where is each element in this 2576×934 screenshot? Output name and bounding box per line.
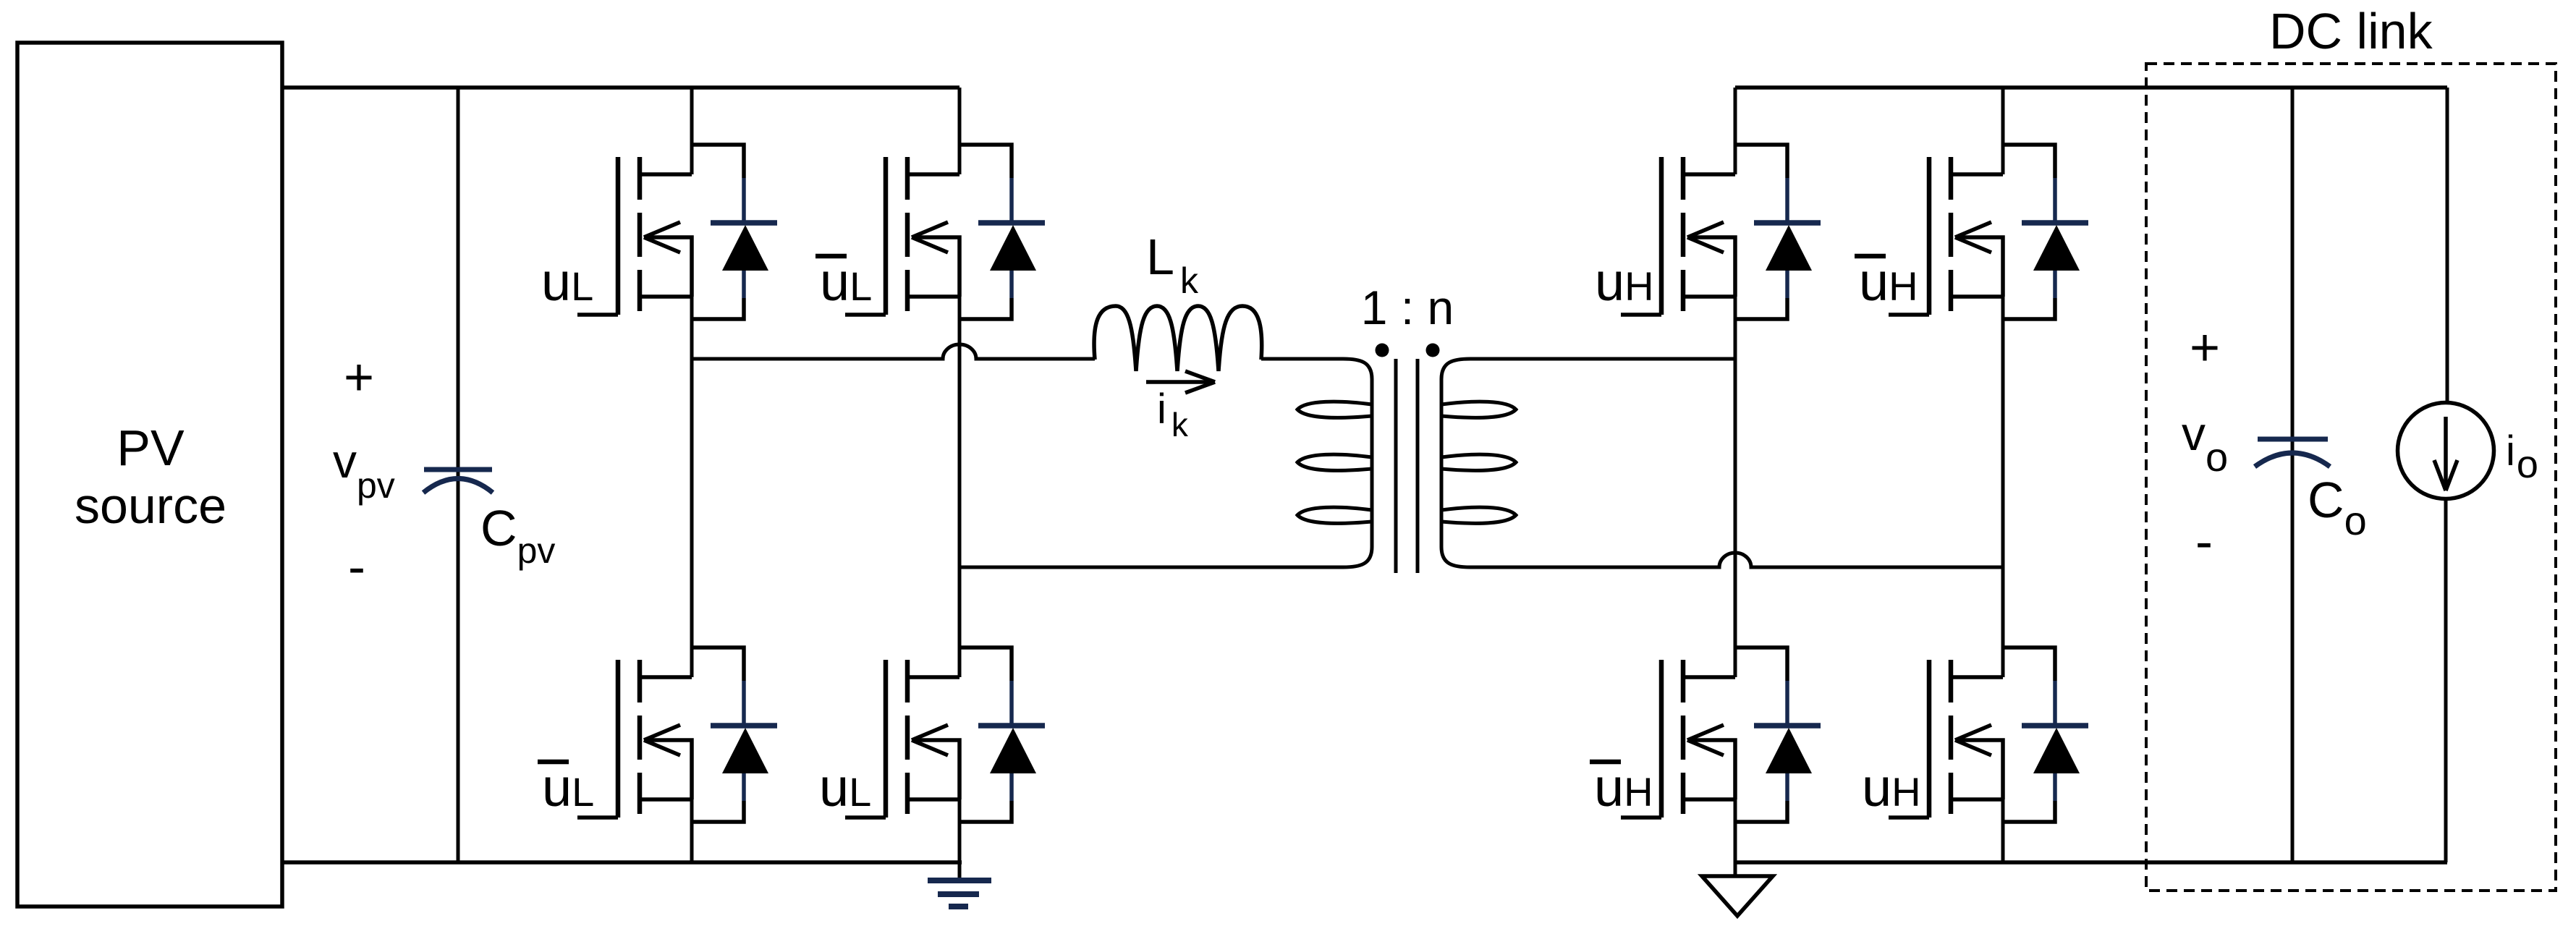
label uH (Q5) bbox=[1595, 252, 1654, 312]
label vo bbox=[2182, 407, 2228, 480]
wire right bridge leg 1 upper bbox=[1734, 88, 1737, 174]
svg-text:source: source bbox=[75, 477, 226, 534]
label ik bbox=[1157, 386, 1189, 443]
transistor Q5 uH (right bridge top-left) bbox=[1661, 157, 1683, 315]
label Co bbox=[2308, 472, 2367, 543]
capacitor Co bbox=[2255, 439, 2330, 467]
wire right bridge leg 1 lower bbox=[1734, 799, 1737, 862]
wire current source branch upper bbox=[2446, 88, 2449, 402]
transistor Q7 uH-bar (right bridge bottom-left) bbox=[1661, 660, 1683, 818]
svg-text:+: + bbox=[344, 349, 374, 407]
transformer primary winding bbox=[1297, 379, 1372, 567]
wire current source branch lower bbox=[2444, 500, 2448, 862]
wire primary top lead bbox=[1261, 359, 1372, 379]
label uH-bar (Q7) bbox=[1590, 757, 1653, 818]
wire left bridge leg 1 upper bbox=[690, 88, 694, 174]
current arrow ik bbox=[1146, 371, 1215, 393]
polarity dot secondary bbox=[1426, 344, 1440, 357]
transistor Q1 uL (left bridge top-left) bbox=[618, 157, 640, 315]
transistor Q2 uL-bar (left bridge top-right) bbox=[886, 157, 907, 315]
capacitor Cpv bbox=[423, 470, 493, 493]
ground (left bridge, signal ground) bbox=[928, 862, 991, 907]
wire right bridge leg 2 middle bbox=[2001, 297, 2005, 677]
wire Cpv branch bbox=[457, 88, 460, 862]
body diode D3 bbox=[692, 648, 777, 822]
svg-text:DC link: DC link bbox=[2269, 3, 2433, 59]
svg-text:1 : n: 1 : n bbox=[1361, 281, 1454, 334]
body diode D1 bbox=[692, 145, 777, 319]
transistor Q4 uL (left bridge bottom-right) bbox=[886, 660, 907, 818]
PV source box bbox=[17, 43, 282, 907]
label Cpv bbox=[480, 500, 555, 571]
label io bbox=[2506, 428, 2538, 486]
label uL-bar (Q2) bbox=[815, 252, 872, 312]
wire secondary bottom lead (hump over right leg1, to right leg2 mid) bbox=[1470, 553, 2003, 567]
wire Co branch bbox=[2291, 88, 2295, 862]
wire bottom rail right bbox=[1735, 860, 2447, 865]
body diode D8 bbox=[2003, 648, 2088, 822]
transformer core bbox=[1396, 359, 1418, 573]
wire left bridge leg 1 lower bbox=[690, 799, 694, 862]
label uH (Q8) bbox=[1862, 757, 1921, 818]
svg-text:-: - bbox=[348, 538, 365, 596]
body diode D5 bbox=[1735, 145, 1821, 319]
transformer secondary winding bbox=[1441, 359, 1516, 567]
label uH-bar (Q6) bbox=[1855, 252, 1918, 312]
polarity dot primary bbox=[1376, 344, 1389, 357]
transistor Q3 uL-bar (left bridge bottom-left) bbox=[618, 660, 640, 818]
label vpv bbox=[333, 434, 395, 506]
body diode D6 bbox=[2003, 145, 2088, 319]
label uL (Q1) bbox=[541, 252, 593, 312]
wire bottom rail left bbox=[282, 860, 962, 865]
svg-text:PV: PV bbox=[116, 420, 185, 476]
body diode D2 bbox=[959, 145, 1045, 319]
wire left bridge leg 2 middle bbox=[958, 297, 962, 677]
wire primary bottom lead (to leg2 mid) bbox=[959, 566, 1343, 569]
wire right bridge leg 1 middle bbox=[1734, 297, 1737, 677]
transistor Q8 uH (right bridge bottom-right) bbox=[1929, 660, 1951, 818]
label uL (Q4) bbox=[819, 757, 871, 818]
label uL-bar (Q3) bbox=[538, 757, 594, 818]
ground (right bridge, chassis triangle) bbox=[1702, 862, 1773, 916]
svg-text:-: - bbox=[2195, 513, 2213, 571]
wire secondary top lead (to right leg1 mid) bbox=[1470, 357, 1735, 361]
label Lk bbox=[1146, 229, 1199, 301]
wire left bridge leg 2 lower bbox=[958, 799, 962, 862]
current source io bbox=[2398, 403, 2494, 499]
wire top rail right bbox=[1735, 85, 2447, 90]
wire top rail left bbox=[282, 85, 959, 90]
wire left bridge leg 2 upper bbox=[958, 88, 962, 174]
svg-text:+: + bbox=[2190, 319, 2220, 377]
wire right bridge leg 2 lower bbox=[2001, 799, 2005, 862]
body diode D7 bbox=[1735, 648, 1821, 822]
transistor Q6 uH-bar (right bridge top-right) bbox=[1929, 157, 1951, 315]
wire left bridge leg 1 middle bbox=[690, 297, 694, 677]
wire right bridge leg 2 upper bbox=[2001, 88, 2005, 174]
DC link dashed boundary bbox=[2146, 64, 2556, 891]
wire node A (leg1 mid to inductor, hump over leg2) bbox=[692, 344, 1095, 359]
label PV source bbox=[75, 420, 226, 534]
inductor Lk bbox=[1094, 306, 1262, 371]
body diode D4 bbox=[959, 648, 1045, 822]
